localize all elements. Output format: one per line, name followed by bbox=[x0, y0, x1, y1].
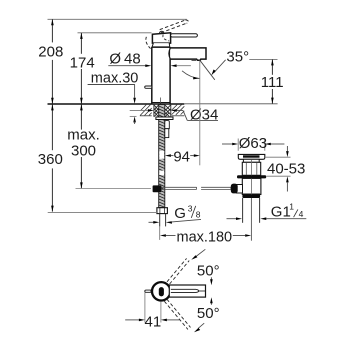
label G3/8 bbox=[149, 204, 202, 224]
dimension 208 bbox=[38, 19, 187, 104]
svg-text:50°: 50° bbox=[197, 262, 220, 279]
dashed handle rotated down 50 bbox=[164, 299, 190, 329]
plug top black band bbox=[243, 155, 260, 157]
svg-text:1: 1 bbox=[289, 202, 294, 212]
dimension Ø63 bbox=[222, 135, 284, 152]
mounting deck line bbox=[48, 103, 185, 105]
dimension 40-53 bbox=[265, 146, 306, 192]
drain upper body bbox=[242, 162, 260, 175]
svg-text:Ø34: Ø34 bbox=[190, 106, 218, 123]
horizontal pull rod bbox=[161, 187, 231, 189]
top view inner bar bbox=[159, 287, 164, 296]
knob (lever base) bbox=[152, 33, 170, 43]
svg-text:174: 174 bbox=[70, 54, 95, 71]
top view handle bbox=[169, 285, 205, 297]
spout bbox=[170, 48, 206, 60]
drain body inner lines bbox=[245, 163, 247, 176]
deck hatching left bbox=[140, 105, 152, 116]
drain neck bbox=[243, 159, 259, 162]
base ring line bbox=[152, 102, 171, 104]
svg-text:35°: 35° bbox=[226, 48, 249, 65]
dimension 41 bbox=[125, 293, 179, 331]
top view circle bbox=[152, 282, 170, 300]
drain lower body bbox=[242, 178, 261, 194]
hose tails below nut bbox=[159, 214, 161, 227]
drain top flange seal (black) bbox=[237, 175, 266, 178]
upper 50 leader arrow bbox=[191, 249, 205, 259]
elbow square fitting bbox=[153, 185, 162, 192]
svg-text:94: 94 bbox=[173, 149, 190, 166]
body centerline tick bbox=[159, 98, 161, 104]
outlet pipe bbox=[243, 160, 260, 241]
dimension max.300 bbox=[67, 104, 151, 188]
upper 50 vertical arrow bbox=[210, 277, 213, 285]
top view aerator stub bbox=[145, 290, 151, 292]
mounting washer bbox=[156, 117, 173, 120]
lower 50 vertical arrow bbox=[210, 297, 213, 305]
top view handle nib bbox=[171, 289, 199, 292]
drain plug disc bbox=[238, 154, 264, 159]
svg-text:Ø63: Ø63 bbox=[239, 135, 267, 152]
svg-text:max.: max. bbox=[67, 127, 100, 144]
dimension Ø34 bbox=[130, 106, 219, 123]
dimension Ø48 bbox=[108, 50, 191, 67]
dimension max.30 bbox=[88, 70, 139, 124]
label G1 1/4 bbox=[227, 202, 307, 221]
svg-text:3: 3 bbox=[188, 204, 193, 214]
dashed handle rotated up 50 bbox=[167, 258, 189, 284]
svg-text:300: 300 bbox=[71, 142, 96, 159]
deck hatching right bbox=[172, 105, 185, 116]
svg-text:max.180: max.180 bbox=[176, 230, 232, 246]
clip stub on body left bbox=[145, 86, 152, 88]
dashed knob alternate position bbox=[146, 37, 151, 49]
handle pivot bump bbox=[159, 31, 163, 34]
dashed arc inside knob bbox=[163, 35, 169, 41]
faucet body bbox=[152, 47, 170, 104]
lever rod bbox=[171, 34, 198, 37]
svg-text:Ø 48: Ø 48 bbox=[109, 50, 140, 67]
dimension 111 bbox=[261, 59, 284, 103]
35 degree annotation bbox=[182, 48, 278, 80]
G3/8 nut bbox=[157, 208, 168, 214]
drain bottom seal band (black) bbox=[242, 195, 260, 199]
deck extension to right bbox=[184, 103, 277, 105]
hose side fitting upper bbox=[165, 121, 170, 129]
svg-text:40-53: 40-53 bbox=[267, 160, 305, 177]
lower 50 leader arrow bbox=[194, 323, 204, 332]
cartridge dome bbox=[152, 43, 170, 47]
svg-text:41: 41 bbox=[145, 314, 162, 331]
svg-text:G: G bbox=[174, 205, 186, 222]
svg-text:50°: 50° bbox=[197, 305, 220, 322]
spout-body fillet arc bbox=[169, 48, 170, 59]
faucet handle raised (dashed lever) bbox=[160, 20, 189, 33]
ball joint knob (black) bbox=[231, 184, 238, 194]
dimension 360 bbox=[38, 104, 157, 212]
hose band break patches bbox=[159, 151, 164, 159]
svg-text:4: 4 bbox=[299, 209, 304, 219]
hose side fitting lower bbox=[165, 129, 169, 138]
threaded shank through deck bbox=[154, 104, 171, 117]
dimension 94 bbox=[165, 60, 200, 165]
svg-text:G1: G1 bbox=[271, 204, 291, 221]
flexible hose band bbox=[159, 105, 165, 208]
dimension 174 bbox=[70, 33, 152, 104]
svg-text:360: 360 bbox=[38, 151, 63, 168]
svg-text:111: 111 bbox=[261, 74, 284, 91]
dimension max.180 bbox=[160, 226, 252, 245]
svg-text:208: 208 bbox=[38, 43, 63, 60]
ball joint adapter (white) bbox=[236, 185, 242, 194]
svg-text:8: 8 bbox=[196, 210, 201, 220]
svg-text:max.30: max.30 bbox=[91, 70, 139, 86]
